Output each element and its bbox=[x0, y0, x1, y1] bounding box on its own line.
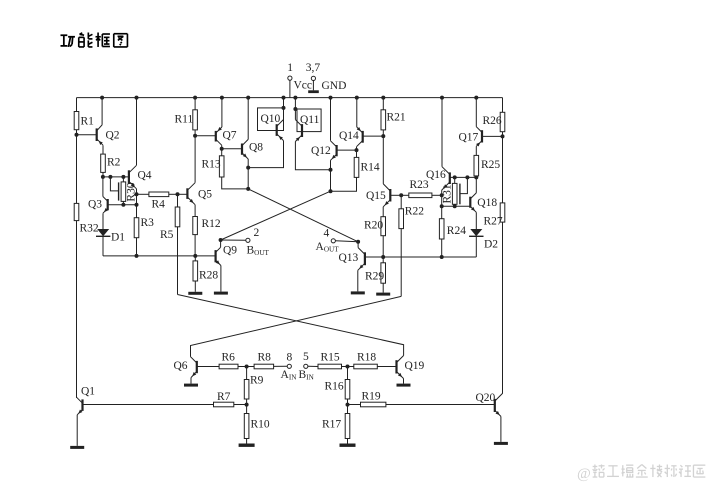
transistor Q1 bbox=[77, 397, 83, 415]
wire R6 to node bbox=[238, 366, 247, 368]
wire R10 top bbox=[246, 405, 248, 414]
svg-text:R21: R21 bbox=[387, 112, 406, 124]
wire Q18 emitter to D2 bbox=[475, 212, 477, 229]
wire R5 to crossover bbox=[177, 227, 179, 295]
resistor R25 bbox=[474, 155, 479, 176]
label watermark bbox=[577, 465, 705, 483]
wire R4 right bbox=[169, 193, 178, 195]
ground under Q20 bbox=[494, 442, 508, 445]
svg-text:Q3: Q3 bbox=[88, 199, 102, 211]
label R25 bbox=[481, 159, 500, 171]
svg-text:R30: R30 bbox=[125, 182, 137, 201]
label Q20 bbox=[476, 392, 496, 404]
wire Q13 emitter to ground bbox=[357, 270, 359, 291]
wire right rail bbox=[502, 98, 504, 394]
wire R10 to ground bbox=[246, 439, 248, 444]
wire B_OUT lead bbox=[221, 239, 246, 241]
svg-text:Q20: Q20 bbox=[476, 392, 496, 404]
node R9-R10 junction bbox=[245, 403, 249, 407]
label pin 1 bbox=[287, 62, 293, 74]
node R4-R5-Q5 junction bbox=[176, 192, 180, 196]
wire R17 to ground bbox=[347, 439, 349, 444]
svg-text:R27: R27 bbox=[484, 216, 503, 228]
label R14 bbox=[361, 162, 380, 174]
wire R22 to crossover bbox=[400, 229, 402, 297]
node B_OUT junction bbox=[219, 238, 223, 242]
resistor R30 bbox=[121, 177, 126, 205]
label Q10 bbox=[261, 113, 281, 125]
wire R25 bottom bbox=[475, 176, 477, 178]
node R6-R8-R9 junction bbox=[245, 365, 249, 369]
svg-text:R10: R10 bbox=[251, 419, 270, 431]
ground under R17 bbox=[340, 444, 356, 447]
resistor R15 bbox=[318, 364, 342, 369]
wire diagonal R22 to Q6 bbox=[191, 296, 402, 356]
label R21 bbox=[387, 112, 406, 124]
transistor Q14 bbox=[357, 127, 363, 147]
transistor Q7 bbox=[216, 127, 222, 145]
node R1 bottom junction bbox=[75, 133, 79, 137]
transistor Q17 bbox=[476, 127, 482, 147]
node Q8-Q10 emitter junction bbox=[246, 166, 250, 170]
wire Q1 base line bbox=[83, 404, 247, 406]
svg-text:4: 4 bbox=[324, 228, 330, 240]
wire R17 top bbox=[347, 405, 349, 414]
label R23 bbox=[410, 179, 429, 191]
ground under R10 bbox=[239, 444, 255, 447]
label Q9 bbox=[223, 245, 237, 257]
wire R24 bottom bbox=[441, 239, 443, 257]
label Q12 bbox=[311, 145, 331, 157]
wire Q5 emitter to R12 bbox=[194, 205, 196, 217]
node R15-R18-R16 junction bbox=[346, 365, 350, 369]
wire R15 to node bbox=[342, 366, 348, 368]
label Q6 bbox=[174, 360, 188, 372]
svg-text:R2: R2 bbox=[107, 157, 121, 169]
label Q5 bbox=[198, 189, 212, 201]
svg-text:R24: R24 bbox=[447, 225, 466, 237]
wire diagonal Q12 to B_OUT bbox=[221, 191, 331, 240]
svg-text:R15: R15 bbox=[321, 352, 340, 364]
node Q15-R23-R22 junction bbox=[399, 193, 403, 197]
wire Q9 emitter to ground bbox=[220, 266, 222, 292]
resistor R12 bbox=[193, 217, 198, 235]
wire R21 bottom bbox=[382, 130, 384, 136]
wire cap gate wire bbox=[110, 177, 118, 191]
label Q4 bbox=[138, 170, 152, 182]
wire A_OUT lead bbox=[335, 241, 358, 242]
label B_OUT bbox=[247, 245, 270, 258]
node pin 3,7 GND terminal bbox=[311, 76, 315, 90]
svg-text:@: @ bbox=[577, 466, 591, 482]
resistor R20 bbox=[381, 217, 386, 236]
node pin 2 B_OUT terminal bbox=[246, 238, 250, 242]
ground under R28 bbox=[188, 292, 202, 295]
svg-text:R18: R18 bbox=[357, 352, 376, 364]
resistor R27 bbox=[500, 203, 505, 222]
wire Q11 collector to rail bbox=[294, 98, 296, 120]
wire Q3 base line bbox=[108, 204, 137, 206]
label Q14 bbox=[339, 130, 359, 142]
label R19 bbox=[362, 391, 381, 403]
node Q10 box corner junction bbox=[282, 106, 286, 110]
transistor Q10 bbox=[277, 120, 284, 141]
label pin 3,7 bbox=[306, 62, 321, 74]
resistor R5 bbox=[175, 194, 180, 227]
wire R14 bottom bbox=[331, 177, 357, 191]
resistor R26 bbox=[500, 112, 505, 131]
label R29 bbox=[365, 271, 384, 283]
transistor Q19 bbox=[397, 356, 404, 379]
svg-text:R1: R1 bbox=[81, 116, 95, 128]
wire R11 bottom bbox=[194, 130, 196, 136]
wire Q9 collector up bbox=[220, 240, 222, 247]
wire Q2 emitter to R2 bbox=[102, 145, 104, 154]
node R20-R29 junction bbox=[381, 255, 385, 259]
label R2 bbox=[107, 157, 121, 169]
node R31 top junction bbox=[453, 175, 457, 179]
wire Q16 emitter down bbox=[441, 190, 443, 206]
node pin 5 B_IN terminal bbox=[304, 364, 308, 368]
svg-text:R19: R19 bbox=[362, 391, 381, 403]
wire Q17 base bbox=[482, 135, 503, 137]
wire Q7 emitter to rail bbox=[221, 98, 223, 127]
label R13 bbox=[202, 159, 221, 171]
ground under Q13 bbox=[351, 291, 365, 294]
svg-text:3,7: 3,7 bbox=[306, 62, 321, 74]
resistor R8 bbox=[254, 364, 274, 369]
resistor R1 bbox=[74, 112, 79, 130]
label R15 bbox=[321, 352, 340, 364]
svg-text:Q6: Q6 bbox=[174, 360, 188, 372]
svg-text:Q5: Q5 bbox=[198, 189, 212, 201]
wire Q7 base bbox=[195, 135, 216, 137]
svg-text:Q1: Q1 bbox=[81, 386, 95, 398]
svg-text:5: 5 bbox=[303, 351, 309, 363]
node R2 junction bbox=[101, 175, 105, 179]
svg-text:Q10: Q10 bbox=[261, 113, 281, 125]
wire D2 to bottom line bbox=[475, 236, 477, 257]
resistor R24 bbox=[439, 206, 444, 239]
wire Q6 emitter to ground bbox=[190, 378, 192, 384]
label R8 bbox=[258, 352, 272, 364]
label R11 bbox=[175, 114, 194, 126]
wire Q6 base bbox=[197, 366, 219, 368]
resistor R22 bbox=[399, 195, 404, 228]
transistor Q20 bbox=[495, 393, 503, 416]
transistor Q10 box bbox=[258, 108, 284, 131]
node R30 bottom junction bbox=[121, 203, 125, 207]
wire Q14 emitter to rail bbox=[356, 98, 358, 128]
capacitor plate left bbox=[118, 182, 120, 200]
svg-text:R12: R12 bbox=[202, 218, 221, 230]
transistor Q16 bbox=[442, 167, 450, 190]
label R4 bbox=[152, 199, 166, 211]
label R10 bbox=[251, 419, 270, 431]
resistor R19 bbox=[361, 402, 386, 407]
node Q17-R26 junction bbox=[501, 134, 505, 138]
svg-text:R29: R29 bbox=[365, 271, 384, 283]
wire Q4 emitter down bbox=[136, 189, 138, 195]
svg-text:Q14: Q14 bbox=[339, 130, 359, 142]
resistor R14 bbox=[354, 150, 359, 177]
node Q16 collector rail junction bbox=[440, 96, 444, 100]
svg-text:Q9: Q9 bbox=[223, 245, 237, 257]
svg-text:R32: R32 bbox=[80, 223, 99, 235]
node pin 4 A_OUT terminal bbox=[331, 239, 335, 243]
node Q7 emitter rail junction bbox=[220, 96, 224, 100]
resistor R16 bbox=[345, 367, 350, 400]
transistor Q11 bbox=[295, 120, 302, 142]
node Q4 collector rail junction bbox=[135, 96, 139, 100]
wire Q15 emitter to R20 bbox=[382, 207, 384, 217]
node R3 bottom junction bbox=[135, 254, 139, 258]
svg-text:Vcc: Vcc bbox=[294, 80, 313, 92]
wire Q5 collector up bbox=[194, 136, 196, 183]
label Q18 bbox=[477, 197, 497, 209]
wire diagonal R5 to Q19 bbox=[178, 295, 404, 356]
resistor R3 bbox=[134, 218, 139, 238]
svg-text:2: 2 bbox=[254, 227, 260, 239]
wire Q18 collector up bbox=[475, 177, 477, 193]
node Q10 collector rail junction bbox=[282, 96, 286, 100]
label pin 8 bbox=[287, 352, 293, 364]
label D2 bbox=[484, 239, 498, 251]
label R7 bbox=[217, 391, 231, 403]
label Q2 bbox=[106, 130, 120, 142]
transistor Q4 bbox=[129, 165, 137, 189]
wire D1 to bottom line bbox=[102, 236, 104, 256]
wire Q15 collector up bbox=[382, 136, 384, 184]
node R25-Q18 junction bbox=[474, 175, 478, 179]
transistor Q8 bbox=[242, 139, 248, 159]
node pin 1 Vcc terminal bbox=[288, 76, 292, 98]
wire R23 left bbox=[401, 194, 409, 196]
diode D1 bbox=[96, 229, 110, 236]
label Vcc bbox=[294, 80, 313, 92]
wire R18 to Q19 bbox=[377, 366, 396, 368]
svg-text:8: 8 bbox=[287, 352, 293, 364]
wire R8 left bbox=[247, 366, 255, 368]
resistor R11 bbox=[193, 98, 198, 130]
node Q12 collector rail junction bbox=[329, 96, 333, 100]
wire Q15 base bbox=[390, 194, 401, 196]
label R24 bbox=[447, 225, 466, 237]
svg-text:R6: R6 bbox=[222, 352, 236, 364]
label Q15 bbox=[366, 190, 386, 202]
transistor Q9 bbox=[216, 247, 221, 265]
node pin 8 A_IN terminal bbox=[287, 364, 291, 368]
resistor R9 bbox=[244, 367, 249, 400]
label R20 bbox=[364, 220, 383, 232]
label pin 4 bbox=[324, 228, 330, 240]
wire Q2 collector to rail bbox=[101, 98, 103, 125]
svg-text:Q13: Q13 bbox=[339, 252, 359, 264]
wire Q16 collector to rail bbox=[441, 98, 443, 167]
wire Q13 base line bbox=[365, 256, 476, 258]
wire Q4 base line bbox=[103, 176, 129, 178]
resistor R6 bbox=[219, 364, 238, 369]
wire Q17 collector to rail bbox=[475, 98, 477, 127]
svg-text:R11: R11 bbox=[175, 114, 194, 126]
ground under Q9 bbox=[214, 292, 228, 295]
transistor Q3 bbox=[103, 197, 108, 214]
wire Q18 base line bbox=[442, 205, 471, 207]
label D1 bbox=[111, 232, 125, 244]
node Q8 collector rail junction bbox=[246, 96, 250, 100]
node R24 bottom junction bbox=[440, 255, 444, 259]
wire diagonal Q8 to A_OUT bbox=[248, 189, 358, 242]
label R16 bbox=[325, 381, 344, 393]
label R3 bbox=[141, 217, 155, 229]
node R11 rail junction bbox=[193, 96, 197, 100]
resistor R18 bbox=[354, 364, 378, 369]
capacitor plate right bbox=[459, 184, 461, 205]
svg-text:Q12: Q12 bbox=[311, 145, 331, 157]
wire Q13 collector up bbox=[357, 242, 359, 248]
svg-text:GND: GND bbox=[322, 80, 347, 92]
transistor Q15 bbox=[383, 184, 390, 207]
wire R28 to ground bbox=[194, 281, 196, 292]
diode D2 bbox=[469, 229, 483, 236]
svg-text:R17: R17 bbox=[322, 419, 341, 431]
svg-text:D1: D1 bbox=[111, 232, 125, 244]
node R31 bottom junction bbox=[453, 204, 457, 208]
wire R29 to ground bbox=[382, 283, 384, 292]
node Q11 collector rail junction bbox=[293, 96, 297, 100]
wire Q3 collector up bbox=[102, 177, 104, 197]
svg-text:Q4: Q4 bbox=[138, 170, 152, 182]
label Q16 bbox=[426, 169, 446, 181]
wire R23 right bbox=[432, 194, 442, 196]
svg-text:R22: R22 bbox=[405, 206, 424, 218]
label Q1 bbox=[81, 386, 95, 398]
wire Q8 collector to rail bbox=[247, 98, 249, 140]
wire R13 bottom bbox=[222, 177, 249, 189]
wire R3 bottom bbox=[136, 238, 138, 256]
svg-text:R14: R14 bbox=[361, 162, 380, 174]
svg-text:R26: R26 bbox=[483, 115, 502, 127]
node R11-Q7 junction bbox=[193, 134, 197, 138]
resistor R23 bbox=[409, 193, 432, 198]
svg-text:Q16: Q16 bbox=[426, 169, 446, 181]
svg-text:R13: R13 bbox=[202, 159, 221, 171]
node Q2 collector rail junction bbox=[100, 96, 104, 100]
resistor R7 bbox=[214, 402, 234, 407]
wire Q11 emitter bbox=[295, 142, 330, 170]
wire Q2 base bbox=[77, 134, 97, 136]
svg-text:R3: R3 bbox=[141, 217, 155, 229]
wire R8 to A_IN bbox=[274, 365, 288, 367]
wire Q1 emitter to ground bbox=[76, 415, 78, 446]
transistor Q11 box bbox=[297, 109, 321, 132]
resistor R28 bbox=[193, 256, 198, 281]
label R6 bbox=[222, 352, 236, 364]
node Q11 box corner junction bbox=[293, 107, 297, 111]
wire Q17 emitter to R25 bbox=[475, 146, 477, 155]
ground GND symbol bbox=[308, 90, 319, 93]
svg-text:1: 1 bbox=[287, 62, 293, 74]
label R18 bbox=[357, 352, 376, 364]
node Q11-Q12 emitter junction bbox=[329, 168, 333, 172]
node gate junction right bbox=[465, 175, 469, 179]
label Q11 bbox=[300, 114, 320, 126]
wire Q7 collector down bbox=[221, 145, 223, 149]
wire Q20 base line bbox=[348, 404, 495, 406]
svg-text:R28: R28 bbox=[199, 270, 218, 282]
ground under R29 bbox=[376, 293, 390, 296]
resistor R29 bbox=[381, 257, 386, 283]
resistor R21 bbox=[381, 98, 386, 130]
svg-text:R16: R16 bbox=[325, 381, 344, 393]
label R28 bbox=[199, 270, 218, 282]
node Q7-Q8-R13 junction bbox=[220, 147, 224, 151]
wire R9 bottom bbox=[246, 399, 248, 405]
node R3 top junction bbox=[135, 203, 139, 207]
svg-text:D2: D2 bbox=[484, 239, 498, 251]
node Q14-Q12-R14 junction bbox=[355, 148, 359, 152]
wire Q9 base line bbox=[103, 255, 216, 257]
node Q18 base line left junction bbox=[440, 204, 444, 208]
label R12 bbox=[202, 218, 221, 230]
label A_IN bbox=[281, 369, 298, 382]
node diagonal-start junction B bbox=[246, 187, 250, 191]
label R1 bbox=[81, 116, 95, 128]
wire B_IN to R15 bbox=[308, 365, 318, 367]
transistor Q2 bbox=[97, 125, 103, 145]
resistor R4 bbox=[149, 192, 169, 197]
resistor R31 bbox=[452, 177, 457, 206]
svg-text:Q8: Q8 bbox=[249, 142, 263, 154]
label GND bbox=[322, 80, 347, 92]
resistor R10 bbox=[244, 414, 249, 439]
node R30 top junction bbox=[121, 175, 125, 179]
svg-text:R9: R9 bbox=[250, 375, 264, 387]
wire R4 vertical link bbox=[136, 194, 138, 217]
node Q14 emitter rail junction bbox=[355, 96, 359, 100]
svg-text:Q19: Q19 bbox=[405, 360, 425, 372]
wire Q12 base bbox=[337, 149, 357, 151]
label Q3 bbox=[88, 199, 102, 211]
label R31 bbox=[441, 184, 453, 203]
label R27 bbox=[484, 216, 503, 228]
wire Q14 base bbox=[363, 135, 384, 137]
label Q17 bbox=[459, 132, 479, 144]
svg-text:R5: R5 bbox=[160, 229, 174, 241]
node R21-Q14-Q15 junction bbox=[381, 134, 385, 138]
wire cap gate wire right bbox=[460, 177, 468, 193]
label R30 bbox=[125, 182, 137, 201]
transistor Q18 bbox=[470, 193, 476, 212]
node R23-Q16 junction bbox=[440, 193, 444, 197]
label R26 bbox=[483, 115, 502, 127]
svg-text:Q17: Q17 bbox=[459, 132, 479, 144]
transistor Q12 bbox=[331, 141, 337, 161]
ground under Q1 bbox=[70, 446, 84, 449]
svg-text:R4: R4 bbox=[152, 199, 166, 211]
label Q7 bbox=[223, 130, 237, 142]
node diagonal-start junction A bbox=[329, 189, 333, 193]
transistor Q13 bbox=[358, 248, 365, 271]
wire Q16 base line bbox=[450, 176, 477, 178]
label R17 bbox=[322, 419, 341, 431]
resistor R32 bbox=[74, 203, 79, 220]
wire Q3 emitter to D1 bbox=[102, 213, 104, 229]
svg-text:R7: R7 bbox=[217, 391, 231, 403]
svg-text:Q2: Q2 bbox=[106, 130, 120, 142]
svg-text:Q18: Q18 bbox=[477, 197, 497, 209]
transistor Q6 bbox=[191, 357, 197, 378]
